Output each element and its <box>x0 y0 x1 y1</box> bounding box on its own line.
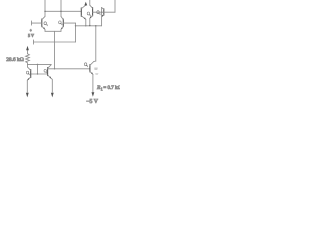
transistor Q5 (NPN, middle right, collector to +5V arrow) <box>81 5 86 19</box>
wire: H2 long base wire y=68.8 from Q7 to Q8 base <box>48 68 90 70</box>
wire: Q4 collector-emitter vertical x=101.6 down to join wire <box>101 7 103 25</box>
label Q8 <box>84 63 87 67</box>
wire: center drop of top-right pair / Q8 collector line <box>95 26 97 61</box>
resistor 28.6k (vertical zigzag) <box>26 54 30 65</box>
transistor Q1 (NPN, left of top-left pair, base at left) <box>32 16 46 31</box>
wire: L-wire vertical x=115 to top edge <box>114 0 116 12</box>
wire: Q5 emitter down to join wire <box>85 19 87 25</box>
label Q5 <box>87 12 90 16</box>
transistor Q8 (NPN, bottom-right output) <box>90 62 94 75</box>
wire: diode-connection stub x=37.5 down to base wire <box>37 64 39 74</box>
svg-text:= 0.7 kΩ: = 0.7 kΩ <box>103 85 120 91</box>
power symbol: +5V arrow at Q5 collector <box>84 2 87 6</box>
transistor Q4 (NPN, right of top-right pair, faces left, diode-connected) <box>102 7 104 16</box>
node: dot at bottom of stub on base wire <box>37 73 38 74</box>
wire: Q3 emitter down to join wire <box>89 18 91 25</box>
power symbol: down arrow at Q8 emitter to -5V <box>92 92 95 97</box>
label Q1 <box>44 22 47 26</box>
svg-text:28.6 kΩ: 28.6 kΩ <box>6 57 24 63</box>
wire: Q3 collector to top edge <box>89 0 91 5</box>
node: dot where x101.6 vertical crosses base wire <box>101 12 102 13</box>
node: dot where drop meets mirror base wire <box>54 68 55 69</box>
wire: Q8 emitter down <box>92 74 94 92</box>
label Q6 <box>26 71 29 75</box>
power symbol: down arrow at Q7 emitter (to -5V) <box>51 93 54 98</box>
node: dot at drop top <box>95 25 96 26</box>
wire: top rail y=11.3 from Q1 collector line to Q5 base <box>45 10 81 12</box>
wire: top vertical at x=45 (Q1 collector to top edge) <box>44 0 46 16</box>
transistor Q6 (NPN, bottom-left, faces left) <box>27 67 30 80</box>
wire: horizontal node wire y=42 with input tick, turns up at x=75.5 <box>34 41 76 43</box>
power symbol: +5V up arrow above resistor <box>26 46 29 54</box>
wire: H1 reference node horizontal y=64.4 <box>28 63 52 65</box>
wire: Q6 collector up to H1 <box>27 64 29 67</box>
node: junction dot rail/x45 <box>44 11 45 12</box>
power symbol: down arrow at Q6 emitter (to -5V) <box>26 93 29 98</box>
node: dot Q3 emitter on join wire <box>89 25 90 26</box>
svg-text:5 V: 5 V <box>28 33 34 38</box>
wire: vertical x=75.5 from Q2 base wire down to y42 wire <box>75 23 77 42</box>
label: tiny annotation right of Q8 emitter <box>96 74 99 75</box>
wire: base wire of top-right pair y=12.2 extended to right L-wire <box>93 11 115 13</box>
node: dot x75.5 on emitter-join wire of Q5 <box>75 25 76 26</box>
label Q2 <box>59 21 62 25</box>
label: tiny annotation right of Q8 collector <box>95 68 98 69</box>
label Q7 <box>44 69 47 73</box>
wire: Q6 emitter down <box>26 80 28 92</box>
node: dot on H1 at x=37.5 <box>37 64 38 65</box>
transistor Q7 (NPN, bottom-middle, faces right) <box>48 65 52 79</box>
wire: mirror base wire y=74 between Q6 and Q7 <box>31 73 48 75</box>
wire: emitter join of top-left pair <box>45 30 61 32</box>
wire: top vertical at x=61 (Q2 collector to top edge) <box>60 0 62 16</box>
terminal tick: y42 wire left end <box>33 40 35 44</box>
transistor Q2 (NPN, right of top-left pair, mirrored, base to right) <box>61 16 76 31</box>
terminal tick: Q1 base input <box>31 21 33 25</box>
wire: long emitter-join wire y=25.8 (x=75.5 to x=107.5) <box>76 25 102 27</box>
transistor Q3 (NPN, left of top-right pair, faces left) <box>90 5 93 18</box>
node: junction dot rail/x61 <box>60 11 61 12</box>
wire: Q8 collector up to join-drop vertical <box>94 60 96 62</box>
label Q4 <box>97 11 100 15</box>
wire: Q7 emitter down <box>51 79 52 93</box>
svg-text:−5 V: −5 V <box>86 99 99 104</box>
wire: center drop from pair emitters down to bottom mirror node <box>54 31 56 69</box>
svg-text:+: + <box>30 28 32 32</box>
node: dot Q5 emitter on join wire <box>85 25 86 26</box>
